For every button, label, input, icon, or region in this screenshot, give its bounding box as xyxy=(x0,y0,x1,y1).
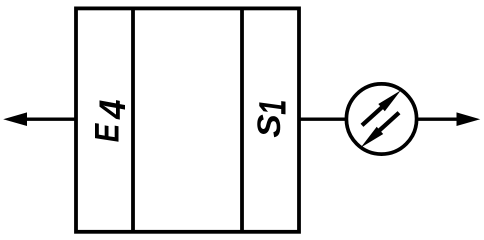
svg-text:1: 1 xyxy=(252,100,295,115)
svg-text:S: S xyxy=(251,114,287,138)
svg-text:E: E xyxy=(88,123,127,143)
svg-text:4: 4 xyxy=(91,100,133,120)
